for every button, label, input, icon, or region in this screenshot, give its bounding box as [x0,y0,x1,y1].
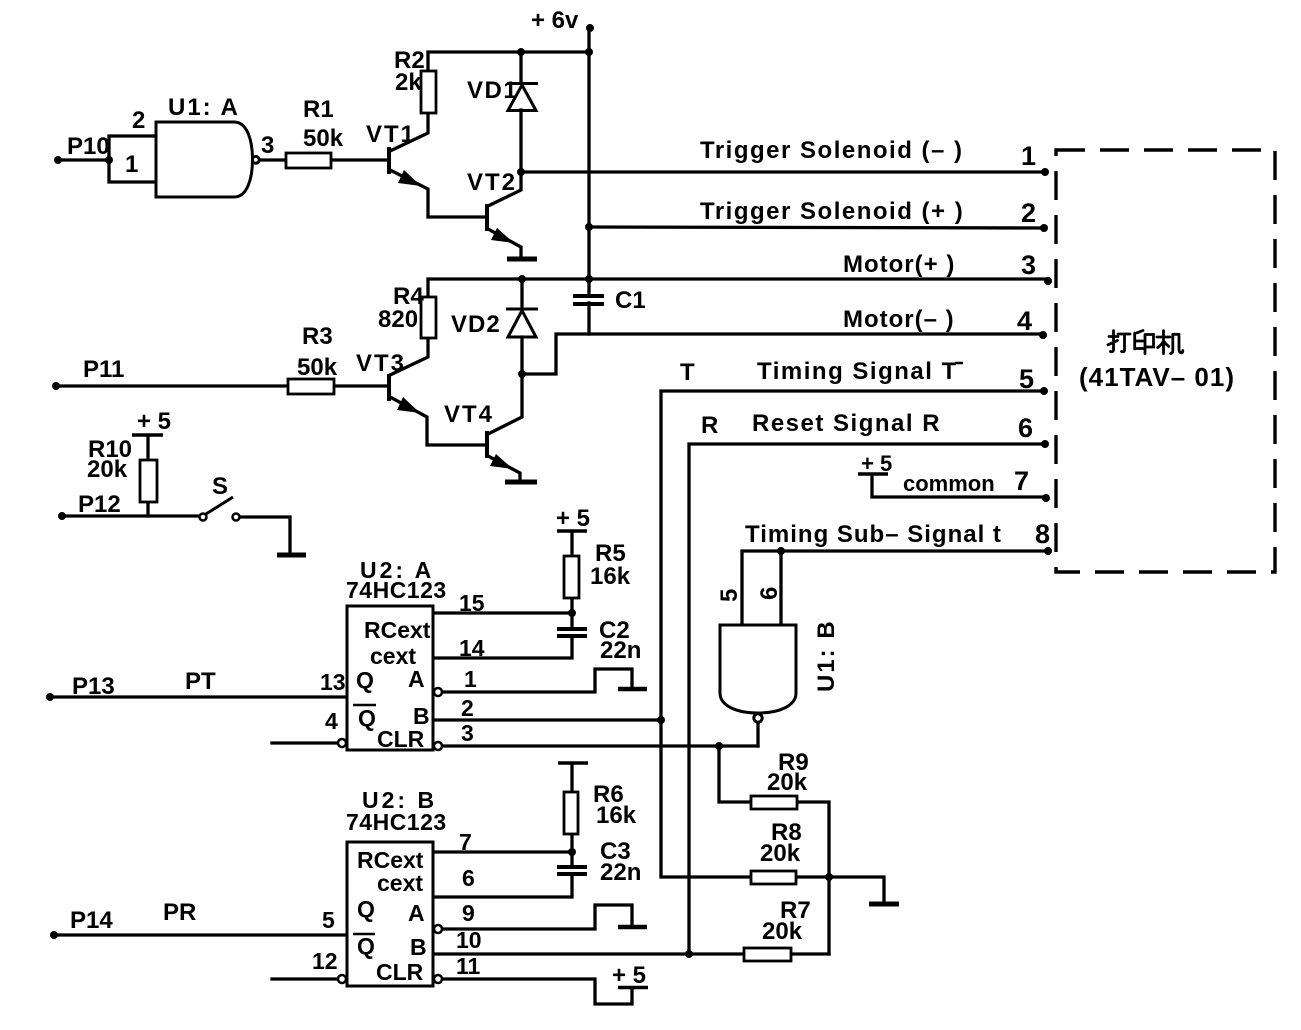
svg-text:P13: P13 [72,673,115,700]
svg-text:P11: P11 [83,356,124,383]
svg-text:+ 5: + 5 [556,505,590,532]
svg-text:R3: R3 [302,323,333,350]
svg-text:5: 5 [1019,364,1034,394]
svg-text:7: 7 [459,829,472,855]
svg-text:R1: R1 [303,96,334,123]
svg-text:VD2: VD2 [451,311,501,338]
svg-text:1: 1 [125,151,138,178]
svg-text:Q: Q [356,667,374,693]
svg-text:+ 5: + 5 [861,451,892,476]
svg-text:2: 2 [132,107,145,134]
svg-text:8: 8 [1035,519,1050,549]
svg-text:2: 2 [1021,198,1036,228]
svg-text:74HC123: 74HC123 [346,577,447,603]
svg-text:50k: 50k [303,125,344,152]
svg-text:PR: PR [163,899,196,926]
svg-text:cext: cext [377,870,423,896]
svg-text:B: B [410,934,427,960]
svg-text:Trigger Solenoid (+ ): Trigger Solenoid (+ ) [700,198,964,225]
svg-text:2: 2 [461,695,474,721]
svg-text:+ 6v: + 6v [531,7,579,34]
svg-text:13: 13 [320,669,346,695]
svg-text:20k: 20k [767,769,808,796]
svg-text:A: A [408,900,425,926]
svg-text:16k: 16k [596,802,637,829]
svg-text:10: 10 [456,927,482,953]
svg-text:(41TAV– 01): (41TAV– 01) [1079,362,1235,392]
svg-text:U1: A: U1: A [168,94,240,121]
svg-text:11: 11 [456,953,481,979]
svg-text:3: 3 [1021,250,1036,280]
svg-text:Motor(– ): Motor(– ) [843,306,955,333]
svg-text:Motor(+ ): Motor(+ ) [843,251,955,278]
svg-text:CLR: CLR [376,959,424,985]
svg-text:T: T [680,359,695,386]
svg-text:3: 3 [461,720,474,746]
svg-text:common: common [903,471,995,496]
svg-text:9: 9 [462,900,475,926]
svg-text:1: 1 [464,666,477,692]
svg-text:22n: 22n [600,637,641,664]
svg-text:22n: 22n [600,859,641,886]
svg-text:1: 1 [1021,141,1036,171]
svg-text:CLR: CLR [377,726,425,752]
svg-text:VT2: VT2 [467,169,517,196]
svg-text:+ 5: + 5 [612,962,646,989]
svg-text:Trigger Solenoid (– ): Trigger Solenoid (– ) [700,137,964,164]
svg-text:A: A [408,666,425,692]
svg-text:3: 3 [261,132,274,159]
svg-text:U1: B: U1: B [813,619,840,692]
svg-text:Q: Q [357,896,375,922]
svg-text:16k: 16k [590,563,631,590]
svg-text:Reset Signal R: Reset Signal R [752,410,941,437]
svg-text:20k: 20k [760,840,801,867]
svg-text:RCext: RCext [364,617,431,643]
svg-text:14: 14 [459,635,485,661]
svg-text:7: 7 [1014,466,1029,496]
svg-text:Timing Signal T: Timing Signal T [757,358,958,385]
svg-text:820: 820 [378,306,418,333]
svg-text:6: 6 [1018,413,1033,443]
svg-text:VT1: VT1 [366,121,416,148]
svg-text:Q: Q [357,933,375,959]
svg-text:C1: C1 [615,287,646,314]
svg-text:S: S [212,473,228,500]
svg-text:4: 4 [325,708,338,734]
svg-text:P10: P10 [67,133,110,160]
svg-text:R: R [701,412,718,439]
svg-text:2k: 2k [395,69,422,96]
svg-text:P12: P12 [78,491,121,518]
svg-text:6: 6 [462,865,475,891]
svg-text:12: 12 [312,948,338,974]
svg-text:+ 5: + 5 [137,408,171,435]
svg-text:5: 5 [322,907,335,933]
svg-text:Timing Sub– Signal t: Timing Sub– Signal t [745,521,1002,548]
svg-text:VT4: VT4 [444,401,494,428]
svg-text:VT3: VT3 [356,350,406,377]
svg-text:4: 4 [1017,306,1032,336]
svg-text:20k: 20k [87,456,128,483]
svg-text:74HC123: 74HC123 [346,809,447,835]
svg-text:VD1: VD1 [467,77,518,104]
svg-text:Q: Q [358,705,376,731]
svg-text:50k: 50k [297,354,338,381]
svg-text:PT: PT [185,668,216,695]
svg-text:5: 5 [716,589,743,602]
svg-text:20k: 20k [762,918,803,945]
svg-text:6: 6 [756,587,783,600]
svg-text:15: 15 [459,590,485,616]
svg-text:P14: P14 [70,907,113,934]
